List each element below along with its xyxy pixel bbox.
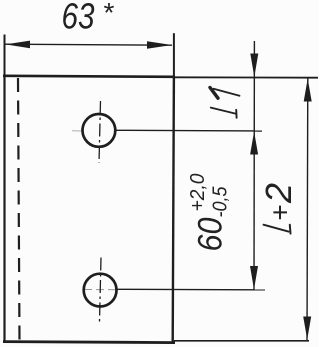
60 bottom arrow (pointing down at hole H2 centerline) [250, 266, 258, 290]
svg-text:+: + [265, 205, 296, 221]
hole H2 circle [84, 274, 117, 307]
dimension 63 left arrow [6, 41, 31, 49]
L1 top arrow (outside, pointing down at top edge) [250, 54, 258, 78]
dimension text L+2: digit 2 [258, 183, 299, 204]
bottom edge extension line (to L+2 dimension) [174, 340, 309, 342]
extension line above plate right [173, 33, 175, 77]
dimension text L1 (handwritten strokes) [210, 88, 240, 118]
svg-text:2: 2 [258, 183, 299, 204]
L+2 top arrow (pointing up at top edge) [304, 79, 312, 102]
dimension line L+2 [306, 78, 309, 340]
L+2 bottom arrow (pointing down at bottom edge) [303, 317, 311, 340]
dimension 63 right arrow [147, 41, 172, 49]
svg-text:-0,5: -0,5 [210, 186, 232, 218]
dimension text 60 with tolerances [187, 174, 232, 252]
svg-text:*: * [104, 0, 115, 28]
dimension text L+2: plus sign [265, 205, 296, 221]
plate left edge [3, 76, 5, 342]
hole H2 centerline extension to dimension line [118, 288, 266, 291]
extension line above plate left [4, 35, 6, 78]
dimension text L+2: letter L (handwritten strokes) [264, 225, 291, 234]
plate right edge [173, 76, 174, 342]
plate top edge [3, 76, 175, 77]
letter L stem [211, 108, 236, 114]
svg-text:60: 60 [192, 217, 230, 251]
hole H2 horizontal centerline inside circle [84, 289, 117, 291]
60 top arrow / L1 bottom arrow (pointing up at hole H1 centerline) [250, 132, 258, 155]
svg-text:63: 63 [62, 0, 95, 37]
hole H1 centerline extension to dimension line [116, 129, 262, 132]
top edge extension line (to L+2 dimension) [174, 76, 318, 78]
hole H2 vertical centerline [100, 258, 102, 322]
bend dashed line [18, 78, 20, 341]
digit 1 flag [210, 88, 218, 99]
hole H1 horizontal centerline stub [72, 130, 82, 132]
hole H1 vertical centerline [99, 101, 101, 163]
dimension 63 line [6, 44, 173, 45]
svg-text:+2,0: +2,0 [187, 174, 209, 212]
digit 1 stem [214, 89, 240, 96]
dimension line for L1 and 60 [253, 41, 255, 290]
letter L foot [235, 110, 237, 118]
hole H1 circle [83, 114, 116, 147]
plate bottom edge [3, 342, 175, 343]
